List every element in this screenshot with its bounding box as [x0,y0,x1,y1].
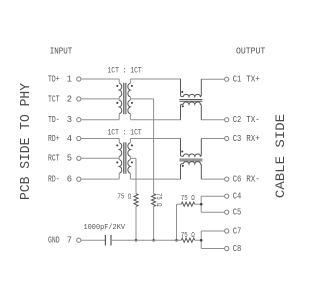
wire T2 CT down to R1 [135,158,137,193]
wire T2 sec CT to R1 [130,157,136,159]
pin 3 terminal [77,118,81,122]
junction R1 bus [135,239,138,242]
choke L2 core [179,158,202,160]
svg-text:TD-: TD- [48,115,60,125]
wire pin 4 [81,138,119,140]
svg-text:OUTPUT: OUTPUT [236,46,265,56]
wire T1 sec CT to R2 [130,98,153,100]
svg-text:C8: C8 [233,244,242,254]
choke L1 bottom winding [181,102,202,120]
resistor R4 75ohm [181,238,194,242]
wire pin C7 [201,230,224,232]
svg-text:C2: C2 [233,115,242,125]
svg-text:TX-: TX- [246,115,259,125]
pin 2 terminal [77,97,81,101]
transformer T1 secondary dot bottom [131,102,133,104]
wire pin 2 [81,98,119,100]
wire T1 CT down to R2 [153,99,155,194]
junction R3 bus [175,239,178,242]
svg-text:C5: C5 [233,208,242,218]
svg-text:GND: GND [48,236,60,246]
pin C1 terminal [225,77,229,81]
wire pin 6 [81,178,119,180]
wire pin C6 [201,178,224,180]
wire pin 7 to capacitor [81,239,105,241]
node C7-C8 tee [200,231,202,249]
svg-text:TD+: TD+ [48,74,60,84]
svg-text:C4: C4 [233,192,242,202]
resistor R3 75ohm [181,202,194,206]
svg-text:TCT: TCT [48,94,60,104]
svg-text:1: 1 [67,74,72,84]
capacitor C9 plates [104,235,106,246]
wire pin C1 [201,78,224,80]
ground bus wire [111,239,181,241]
svg-text:5: 5 [67,154,72,164]
svg-text:3: 3 [67,115,72,125]
wire R1 to bus [135,206,137,240]
wire T2 sec top to choke [130,138,181,140]
pin 1 terminal [77,77,81,81]
svg-text:1CT : 1CT: 1CT : 1CT [108,66,142,75]
transformer T1 secondary dot top [131,85,133,87]
pin C7 terminal [225,229,229,233]
choke L2 top winding [181,139,202,157]
svg-text:2: 2 [67,94,72,104]
transformer T1 primary winding [119,83,122,97]
wire T1 sec bottom to choke [130,119,181,121]
transformer T2 secondary winding [128,143,131,157]
svg-text:RD-: RD- [48,175,60,185]
pin 6 terminal [77,177,81,181]
svg-text:75 Ω: 75 Ω [117,194,131,202]
choke L1 top dot [181,91,183,93]
svg-text:75 Ω: 75 Ω [181,195,195,203]
wire pin 5 [81,157,119,159]
wire R3 left to bus [177,203,182,205]
pin 5 terminal [77,156,81,160]
pin 4 terminal [77,136,81,140]
wire pin 3 [81,119,119,121]
transformer T2 primary dot bottom [116,161,118,163]
svg-text:RX-: RX- [246,175,259,185]
svg-text:TX+: TX+ [246,75,259,85]
wire pin C4 [201,195,224,197]
svg-text:C6: C6 [233,175,242,185]
svg-text:75 Ω: 75 Ω [181,232,195,240]
pin C2 terminal [225,118,229,122]
svg-text:CABLE SIDE: CABLE SIDE [274,114,288,198]
wire R2 to bus [153,206,155,240]
resistor R1 75ohm [134,194,138,207]
wire R3 right [195,203,202,205]
svg-text:C3: C3 [233,134,242,144]
svg-text:4: 4 [67,134,72,144]
choke L1 bottom dot [182,105,184,107]
choke L1 top winding [181,79,202,97]
wire pin C8 [201,248,224,250]
pin C4 terminal [225,194,229,198]
transformer T2 secondary dot bottom [131,161,133,163]
svg-text:RX+: RX+ [246,134,259,144]
transformer T1 core [123,83,125,114]
svg-text:1CT : 1CT: 1CT : 1CT [108,128,142,137]
transformer T1 primary dot top [116,85,118,87]
transformer T2 secondary dot top [131,144,133,146]
junction R2 bus [152,239,155,242]
svg-text:1000pF/2KV: 1000pF/2KV [84,224,126,232]
transformer T2 primary dot top [116,144,118,146]
svg-text:C1: C1 [233,75,242,85]
choke L2 bottom dot [182,165,184,167]
wire pin C3 [201,138,224,140]
pin C5 terminal [225,210,229,214]
svg-text:PCB SIDE TO PHY: PCB SIDE TO PHY [18,82,34,200]
wire R4 right [195,239,202,241]
pin C8 terminal [225,246,229,250]
svg-text:6: 6 [67,175,72,185]
pin C3 terminal [225,136,229,140]
svg-text:C7: C7 [233,226,242,236]
pin 7 terminal [77,238,81,242]
transformer T2 primary winding [119,143,122,157]
choke L1 core [179,99,202,101]
transformer T1 secondary winding [128,83,131,97]
pin C6 terminal [225,177,229,181]
svg-text:RD+: RD+ [48,134,60,144]
wire pin C2 [201,119,224,121]
svg-text:75 Ω: 75 Ω [154,193,162,207]
resistor R2 75ohm [152,194,156,207]
choke L2 top dot [181,150,183,152]
node C4-C5 tee [200,196,202,212]
transformer T2 core [123,142,125,173]
wire pin 1 [81,78,119,80]
svg-text:INPUT: INPUT [50,46,73,56]
svg-text:RCT: RCT [48,154,60,164]
junction C4-C5 [200,203,203,206]
junction C7-C8 [200,239,203,242]
wire T1 sec top to choke [130,78,181,80]
wire T2 sec bottom to choke [130,178,181,180]
choke L2 bottom winding [181,162,202,180]
transformer T1 primary dot bottom [116,102,118,104]
wire pin C5 [201,211,224,213]
svg-text:7: 7 [67,236,72,246]
